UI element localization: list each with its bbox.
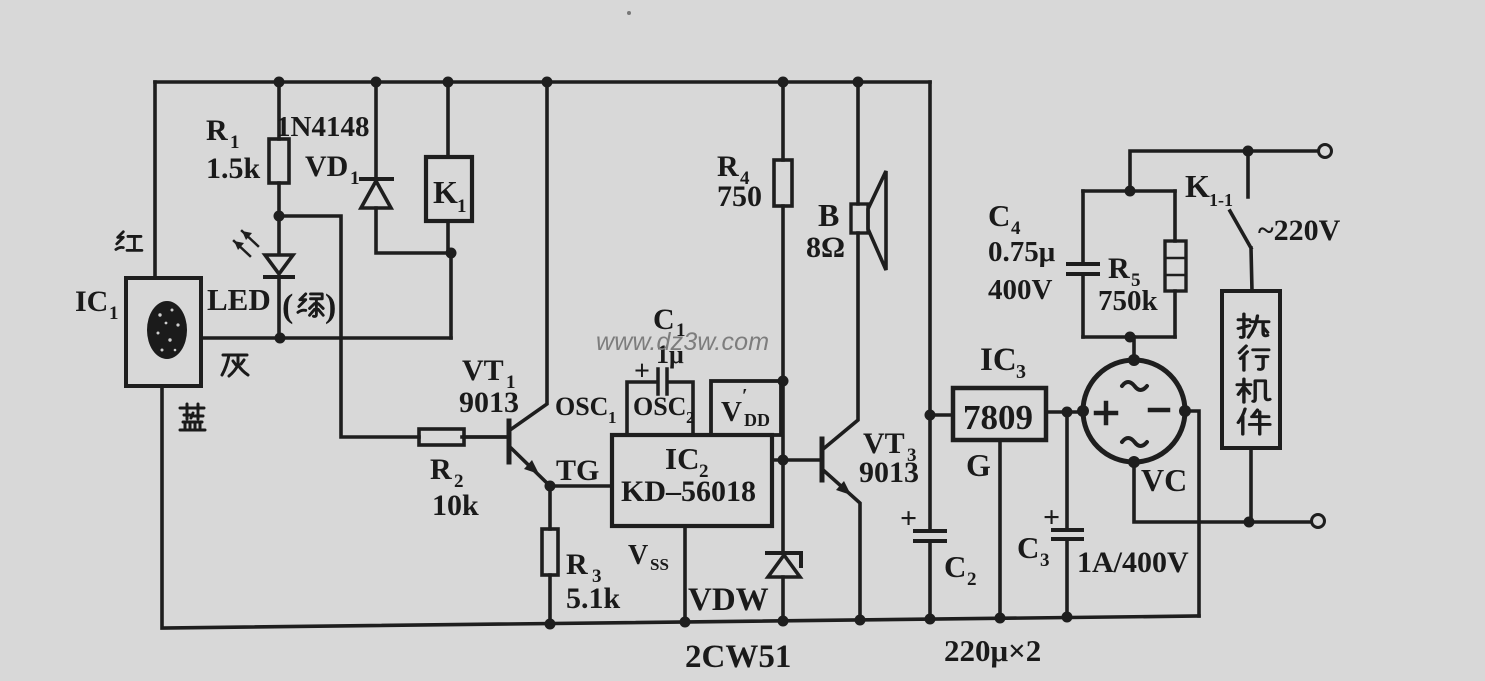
svg-text:2: 2 xyxy=(686,408,695,427)
svg-text:1N4148: 1N4148 xyxy=(276,111,369,143)
svg-text:1: 1 xyxy=(608,408,617,427)
svg-text:R: R xyxy=(566,548,588,581)
svg-text:3: 3 xyxy=(1040,550,1050,571)
svg-text:1A/400V: 1A/400V xyxy=(1077,546,1189,579)
svg-text:8Ω: 8Ω xyxy=(806,231,845,264)
svg-text:5.1k: 5.1k xyxy=(566,582,621,615)
svg-text:VC: VC xyxy=(1141,462,1187,498)
svg-text:+: + xyxy=(634,356,650,387)
svg-text:750: 750 xyxy=(717,180,762,213)
svg-text:K: K xyxy=(1185,168,1210,204)
svg-text:′: ′ xyxy=(742,385,748,407)
svg-text:VDW: VDW xyxy=(688,582,769,618)
svg-text:DD: DD xyxy=(744,410,770,430)
svg-text:R: R xyxy=(206,114,228,147)
svg-text:www.dz3w.com: www.dz3w.com xyxy=(596,328,769,356)
svg-text:+: + xyxy=(900,502,917,535)
svg-text:R: R xyxy=(717,150,739,183)
svg-text:10k: 10k xyxy=(432,489,479,522)
svg-text:1: 1 xyxy=(230,132,240,153)
svg-text:V: V xyxy=(721,396,742,428)
svg-text:1: 1 xyxy=(457,196,467,217)
svg-text:1.5k: 1.5k xyxy=(206,152,261,185)
svg-text:KD–56018: KD–56018 xyxy=(621,475,756,508)
svg-text:1: 1 xyxy=(109,303,119,324)
svg-text:(: ( xyxy=(282,288,293,325)
svg-text:VT: VT xyxy=(462,354,504,387)
svg-text:G: G xyxy=(966,447,991,483)
svg-text:~220V: ~220V xyxy=(1258,214,1341,247)
svg-text:R: R xyxy=(430,453,452,486)
svg-text:1: 1 xyxy=(350,168,360,189)
svg-text:VD: VD xyxy=(305,150,348,183)
svg-text:IC: IC xyxy=(980,342,1017,378)
svg-text:K: K xyxy=(433,174,458,210)
svg-text:0.75μ: 0.75μ xyxy=(988,236,1056,268)
svg-text:IC: IC xyxy=(665,441,699,476)
svg-text:9013: 9013 xyxy=(859,456,919,489)
svg-text:C: C xyxy=(944,549,966,584)
svg-text:7809: 7809 xyxy=(963,398,1033,437)
svg-text:2CW51: 2CW51 xyxy=(685,639,791,675)
svg-text:V: V xyxy=(628,540,648,571)
svg-text:IC: IC xyxy=(75,285,108,318)
svg-text:TG: TG xyxy=(556,454,599,487)
svg-text:OSC: OSC xyxy=(633,392,686,421)
svg-text:9013: 9013 xyxy=(459,386,519,419)
svg-text:220μ×2: 220μ×2 xyxy=(944,633,1041,668)
svg-text:OSC: OSC xyxy=(555,392,608,421)
svg-text:C: C xyxy=(988,198,1010,233)
svg-text:C: C xyxy=(1017,530,1039,565)
svg-text:SS: SS xyxy=(650,555,669,574)
svg-text:R: R xyxy=(1108,252,1130,285)
svg-text:): ) xyxy=(325,288,336,325)
svg-text:B: B xyxy=(818,197,839,233)
svg-text:3: 3 xyxy=(1016,361,1026,383)
svg-text:2: 2 xyxy=(967,569,977,590)
svg-text:1-1: 1-1 xyxy=(1209,190,1233,210)
svg-text:+: + xyxy=(1043,501,1060,534)
svg-text:750k: 750k xyxy=(1098,285,1159,317)
svg-text:LED: LED xyxy=(207,282,271,317)
svg-text:400V: 400V xyxy=(988,274,1053,306)
